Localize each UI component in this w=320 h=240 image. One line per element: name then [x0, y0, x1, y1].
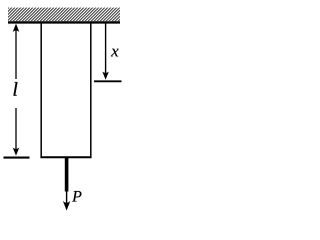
- tick line for x dimension: [94, 80, 122, 82]
- bar right edge: [90, 23, 92, 157]
- force P arrowhead: [63, 201, 70, 211]
- bar bottom line: [40, 156, 91, 158]
- dimension l down arrowhead: [13, 148, 20, 156]
- dimension x line: [105, 23, 107, 76]
- bar left edge: [40, 23, 42, 157]
- ceiling line: [8, 21, 120, 23]
- ceiling hatch block: [8, 8, 120, 22]
- label P: [72, 191, 81, 202]
- label x: [111, 49, 119, 57]
- force P thick shank: [65, 157, 69, 192]
- dimension l line lower segment: [15, 108, 17, 153]
- dimension l up arrowhead: [13, 24, 20, 32]
- force P thin shank: [66, 192, 68, 205]
- dimension l line upper segment: [15, 27, 17, 80]
- tick line under l dimension: [4, 157, 30, 159]
- dimension x down arrowhead: [102, 72, 109, 80]
- label l: [13, 82, 17, 95]
